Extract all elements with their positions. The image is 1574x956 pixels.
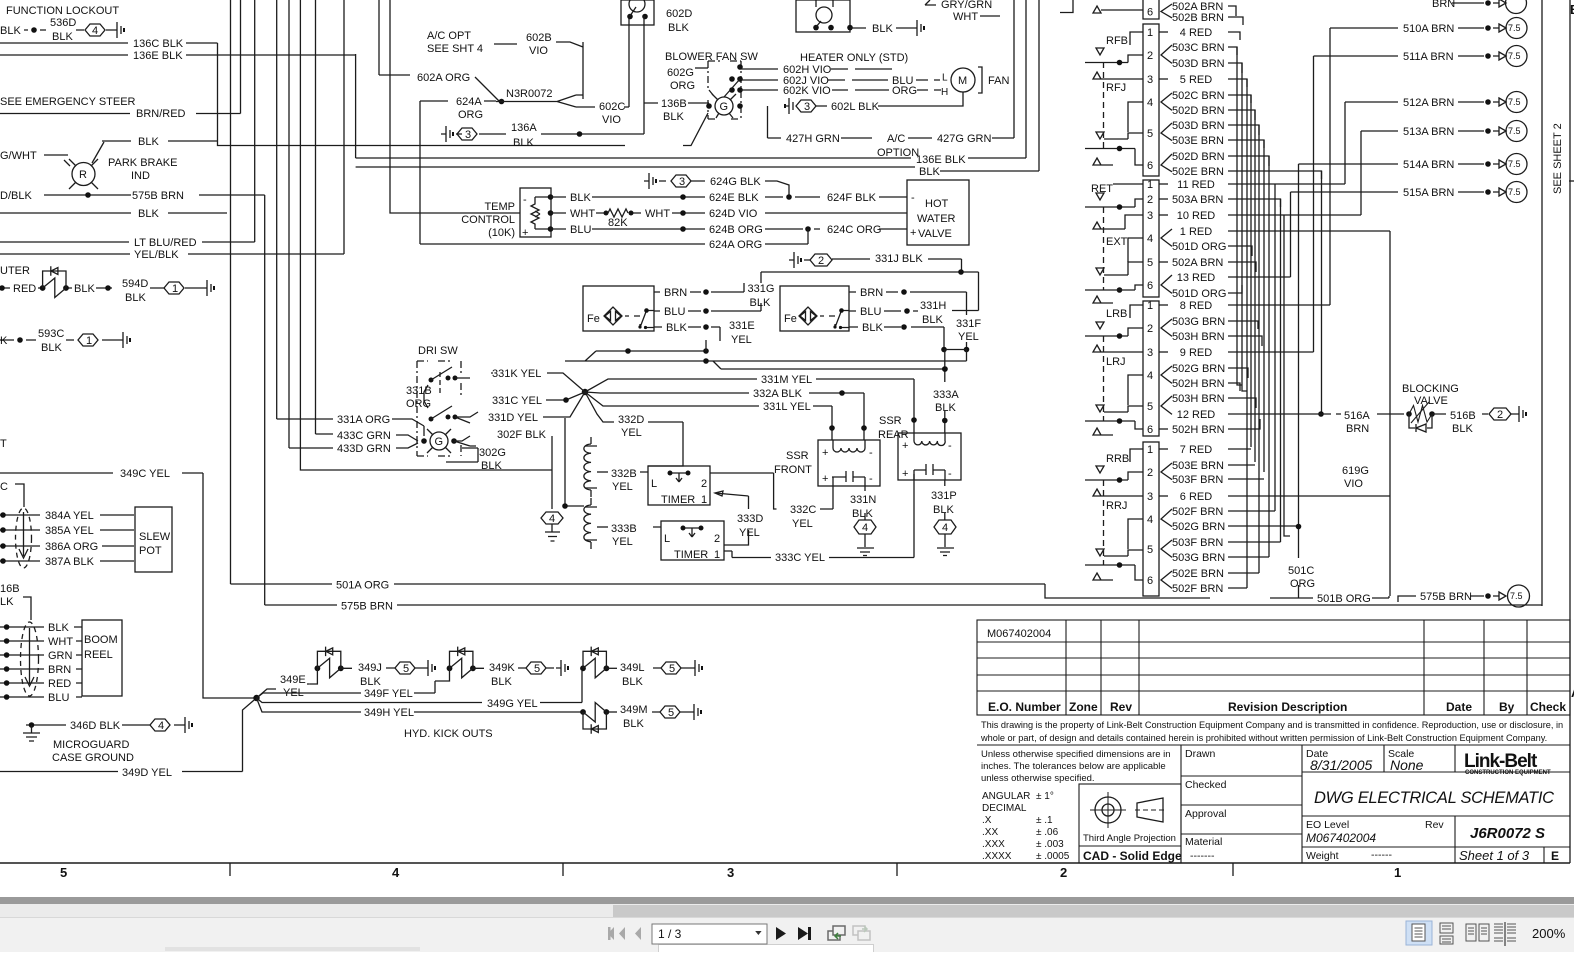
triangle up <box>1093 72 1143 79</box>
svg-text:Date: Date <box>1446 700 1472 714</box>
svg-text:503E BRN: 503E BRN <box>1172 135 1224 147</box>
svg-text:TEMP: TEMP <box>484 201 515 213</box>
wire 349E YEL <box>257 684 310 698</box>
wire RFB pin1 <box>1130 32 1143 45</box>
svg-text:3: 3 <box>727 865 734 880</box>
svg-text:DRI SW: DRI SW <box>418 345 458 357</box>
svg-text:501A ORG: 501A ORG <box>336 580 389 592</box>
svg-text:Sheet 1 of 3: Sheet 1 of 3 <box>1459 848 1530 863</box>
svg-text:-: - <box>948 468 952 480</box>
svg-text:331M YEL: 331M YEL <box>761 374 812 386</box>
svg-text:± .1: ± .1 <box>1036 815 1053 826</box>
ground <box>118 332 127 348</box>
wire 433D GRN <box>289 443 418 448</box>
svg-text:-: - <box>911 192 915 204</box>
svg-text:2: 2 <box>1147 467 1153 479</box>
svg-text:LRJ: LRJ <box>1106 356 1126 368</box>
svg-text:503F BRN: 503F BRN <box>1172 474 1223 486</box>
wire 602K VIO <box>741 89 941 91</box>
svg-text:BLK: BLK <box>52 31 73 43</box>
pin 3 <box>1147 491 1153 503</box>
wire 624G BLK <box>644 173 666 189</box>
border inner right <box>1541 0 1543 606</box>
svg-text:7 RED: 7 RED <box>1180 444 1212 456</box>
wire G/WHT <box>44 154 68 156</box>
svg-text:2: 2 <box>1147 323 1153 335</box>
triangle up <box>1093 215 1143 229</box>
connector block 2 outline <box>1143 24 1159 176</box>
svg-text:YEL: YEL <box>612 536 633 548</box>
cable shield boom reel <box>21 622 39 696</box>
component BOOM REEL <box>82 620 122 696</box>
connector left decorations RRB/RRJ <box>1106 453 1129 512</box>
svg-text:BLK: BLK <box>666 322 687 334</box>
fuse row partial top <box>1452 0 1506 7</box>
wire top bus 272 <box>761 272 979 283</box>
wire 331M YEL <box>585 379 914 433</box>
svg-text:4: 4 <box>549 513 555 525</box>
svg-text:BRN/RED: BRN/RED <box>136 108 186 120</box>
svg-text:3: 3 <box>1147 347 1153 359</box>
connector left decorations LRB/LRJ <box>1106 308 1127 368</box>
svg-text:None: None <box>1390 757 1424 773</box>
fuse 514A BRN <box>1299 160 1507 168</box>
svg-text:BLU: BLU <box>664 306 685 318</box>
wire 602B VIO <box>494 42 583 99</box>
wire 136E BLK jog <box>355 54 357 158</box>
svg-text:L: L <box>651 478 657 490</box>
svg-text:RRB: RRB <box>1106 453 1129 465</box>
node A/C OPT SEE SHT 4 <box>427 30 483 55</box>
svg-text:G: G <box>720 101 729 113</box>
svg-text:502E BRN: 502E BRN <box>1172 166 1224 178</box>
svg-text:516A: 516A <box>1344 410 1370 422</box>
wire 624A ORG drop <box>420 101 496 244</box>
svg-text:ANGULAR: ANGULAR <box>982 791 1030 802</box>
wire pin5 dot <box>1085 149 1143 166</box>
svg-text:136E BLK: 136E BLK <box>916 154 966 166</box>
wire slew cable bracket <box>15 484 24 507</box>
svg-text:331H: 331H <box>920 300 946 312</box>
pin 4 <box>1147 514 1153 526</box>
svg-text:331K YEL: 331K YEL <box>492 368 541 380</box>
connector block 1 outline <box>1143 0 1159 19</box>
svg-text:BLK: BLK <box>933 504 954 516</box>
wire vertical bus V3 LT BLU/RED <box>254 0 256 242</box>
svg-text:3: 3 <box>804 101 810 113</box>
svg-text:511A BRN: 511A BRN <box>1403 51 1454 63</box>
wire corner top right of heater <box>1060 0 1073 13</box>
svg-text:503E BRN: 503E BRN <box>1172 460 1224 472</box>
svg-text:MICROGUARD: MICROGUARD <box>53 739 129 751</box>
svg-text:349M: 349M <box>620 704 648 716</box>
svg-text:624A ORG: 624A ORG <box>709 239 762 251</box>
svg-text:K: K <box>0 335 8 347</box>
svg-text:602K VIO: 602K VIO <box>783 85 831 97</box>
svg-text:331B: 331B <box>406 385 432 397</box>
svg-text:CASE GROUND: CASE GROUND <box>52 752 134 764</box>
svg-text:3: 3 <box>1147 491 1153 503</box>
svg-text:619G: 619G <box>1342 465 1369 477</box>
svg-text:4: 4 <box>1147 97 1153 109</box>
svg-text:349H YEL: 349H YEL <box>364 707 414 719</box>
wire vertical bus V9 YEL/BLK <box>343 0 345 254</box>
svg-text:G/WHT: G/WHT <box>0 150 37 162</box>
svg-text:C: C <box>0 481 8 493</box>
svg-text:-: - <box>869 473 873 485</box>
pin 2 <box>1147 323 1153 335</box>
svg-text:L: L <box>942 73 948 84</box>
svg-text:331E: 331E <box>729 320 755 332</box>
svg-text:594D: 594D <box>122 278 148 290</box>
svg-text:L: L <box>664 533 670 545</box>
svg-text:333D: 333D <box>737 513 763 525</box>
svg-text:624B ORG: 624B ORG <box>709 224 763 236</box>
wire 349F YEL <box>257 681 436 698</box>
wire 602A ORG drop <box>378 0 380 75</box>
svg-text:433D GRN: 433D GRN <box>337 443 391 455</box>
svg-text:A/C: A/C <box>887 133 905 145</box>
svg-text:BRN: BRN <box>1432 0 1455 10</box>
wire 575B BRN right <box>1398 592 1506 602</box>
wire Fe1 BLU <box>654 303 761 311</box>
svg-text:6: 6 <box>1147 160 1153 172</box>
svg-text:1: 1 <box>172 283 178 295</box>
svg-text:+: + <box>522 227 528 239</box>
svg-text:DWG ELECTRICAL SCHEMATIC: DWG ELECTRICAL SCHEMATIC <box>1314 789 1554 807</box>
svg-text:-: - <box>869 447 873 459</box>
triangle up <box>1093 296 1113 303</box>
relay Fe 2 <box>780 286 849 331</box>
svg-text:A/C OPT: A/C OPT <box>427 30 471 42</box>
wire 331P BLK <box>944 480 946 520</box>
wire bundle verticals right of connector <box>1237 47 1242 385</box>
svg-text:YEL: YEL <box>739 527 760 539</box>
pin 5 <box>1147 544 1153 556</box>
wire 332A BLK <box>585 392 864 440</box>
svg-text:.X: .X <box>982 815 992 826</box>
svg-text:R: R <box>79 169 87 181</box>
svg-text:BLK: BLK <box>481 460 502 472</box>
svg-text:332A BLK: 332A BLK <box>753 388 803 400</box>
component SSR FRONT <box>774 450 812 476</box>
wire heater top switch <box>796 0 850 32</box>
fuse 511A BRN <box>1314 52 1507 60</box>
wire vertical bus V7 <box>300 0 552 470</box>
svg-text:331L YEL: 331L YEL <box>763 401 811 413</box>
connector hexagon 1 <box>164 282 184 294</box>
svg-text:E.O. Number: E.O. Number <box>988 700 1061 714</box>
zone numbers bottom <box>60 865 1401 880</box>
svg-text:503G BRN: 503G BRN <box>1172 552 1225 564</box>
svg-text:+: + <box>902 468 908 480</box>
wire 602A ORG <box>379 75 499 101</box>
wire 331D YEL <box>543 392 585 417</box>
svg-text:VIO: VIO <box>602 114 621 126</box>
wire 386A ORG <box>0 545 134 547</box>
svg-text:(10K): (10K) <box>488 227 515 239</box>
svg-text:575B BRN: 575B BRN <box>132 190 184 202</box>
wire 331N BLK <box>864 486 866 520</box>
svg-text:503A BRN: 503A BRN <box>1172 194 1223 206</box>
svg-text:SEE EMERGENCY STEER: SEE EMERGENCY STEER <box>0 96 136 108</box>
svg-text:ORG: ORG <box>458 109 483 121</box>
connector block 4 outline <box>1143 301 1159 436</box>
svg-text:VALVE: VALVE <box>1414 395 1448 407</box>
svg-text:331D YEL: 331D YEL <box>488 412 538 424</box>
svg-text:IND: IND <box>131 170 150 182</box>
svg-text:LK: LK <box>0 596 14 608</box>
wire 624E BLK / 624F BLK <box>551 196 908 198</box>
svg-text:HYD. KICK OUTS: HYD. KICK OUTS <box>404 728 493 740</box>
diode relay 349L <box>580 647 609 678</box>
zone letter A right edge <box>1571 685 1574 700</box>
svg-text:16B: 16B <box>0 583 20 595</box>
svg-text:515A BRN: 515A BRN <box>1403 187 1454 199</box>
svg-text:SSR: SSR <box>879 415 902 427</box>
toolbar nav buttons <box>600 920 890 948</box>
resistor 82K <box>551 212 908 214</box>
svg-text:WHT: WHT <box>953 11 978 23</box>
wire 501A ORG <box>231 584 1211 598</box>
svg-text:SEE SHEET 2: SEE SHEET 2 <box>1552 123 1564 194</box>
pin 2 <box>1147 50 1153 62</box>
svg-text:FAN: FAN <box>988 75 1009 87</box>
wire 349G YEL <box>257 671 583 703</box>
wire BLK park brake <box>102 140 218 142</box>
pin 2 <box>1147 467 1153 479</box>
svg-text:FUNCTION LOCKOUT: FUNCTION LOCKOUT <box>6 5 119 17</box>
ground <box>112 22 121 38</box>
svg-text:502H BRN: 502H BRN <box>1172 378 1225 390</box>
wire 333D YEL <box>715 491 749 545</box>
svg-text:BRN: BRN <box>860 287 883 299</box>
svg-text:6: 6 <box>1147 7 1153 19</box>
wire 331F YEL down <box>941 347 947 353</box>
svg-text:BRN: BRN <box>1346 423 1369 435</box>
svg-text:602C: 602C <box>599 101 625 113</box>
svg-text:BLU: BLU <box>860 306 881 318</box>
border zone tick right <box>1569 180 1574 182</box>
svg-text:1 RED: 1 RED <box>1180 226 1212 238</box>
svg-text:2: 2 <box>1060 865 1067 880</box>
svg-text:332B: 332B <box>611 468 637 480</box>
title DWG ELECTRICAL SCHEMATIC <box>1314 789 1554 807</box>
svg-text:HEATER ONLY (STD): HEATER ONLY (STD) <box>800 52 908 64</box>
svg-text:SLEW: SLEW <box>139 531 171 543</box>
svg-text:± .06: ± .06 <box>1036 827 1059 838</box>
wire 331L YEL <box>585 392 832 440</box>
connector hexagon 4 mid <box>541 512 563 524</box>
wire 624A ORG bottom <box>420 243 808 245</box>
wire vertical bus V5 331A ORG <box>276 0 278 419</box>
svg-text:82K: 82K <box>608 217 628 229</box>
connector hexagon 5 <box>526 662 546 674</box>
svg-text:BLU: BLU <box>570 224 591 236</box>
svg-text:575B BRN: 575B BRN <box>341 601 393 613</box>
triangle up <box>1093 573 1113 580</box>
svg-text:5: 5 <box>1147 544 1153 556</box>
node C partial <box>0 481 8 493</box>
svg-text:BLK: BLK <box>48 622 69 634</box>
svg-text:503D BRN: 503D BRN <box>1172 120 1225 132</box>
triangle down <box>1096 466 1104 473</box>
svg-text:RED: RED <box>48 678 71 690</box>
wire Fe2 BLK <box>849 327 944 350</box>
svg-text:512A BRN: 512A BRN <box>1403 97 1454 109</box>
wire vertical bus V8 433C GRN <box>315 0 317 434</box>
svg-text:4: 4 <box>92 25 98 37</box>
svg-text:± .003: ± .003 <box>1036 839 1064 850</box>
svg-text:6 RED: 6 RED <box>1180 491 1212 503</box>
svg-text:M: M <box>958 75 967 87</box>
svg-text:-: - <box>523 194 527 206</box>
svg-text:3: 3 <box>465 129 471 141</box>
wire mid bus 361 <box>565 350 967 362</box>
svg-text:6: 6 <box>1147 575 1153 587</box>
triangle down <box>1096 193 1104 200</box>
node FUNCTION LOCKOUT label <box>6 5 119 17</box>
node junction hyd kick outs <box>253 695 259 701</box>
svg-text:10 RED: 10 RED <box>1177 210 1216 222</box>
ground <box>912 20 921 36</box>
connector block 5 outline <box>1143 442 1159 596</box>
svg-text:624C ORG: 624C ORG <box>827 224 881 236</box>
svg-text:Drawn: Drawn <box>1185 748 1216 760</box>
lamp R park brake ind <box>72 163 95 186</box>
wire 501B ORG <box>1270 596 1389 598</box>
svg-text:5 RED: 5 RED <box>1180 74 1212 86</box>
svg-text:BLK: BLK <box>919 166 940 178</box>
svg-text:331A ORG: 331A ORG <box>337 414 390 426</box>
wire Fe1 BLK 331E YEL <box>654 327 720 341</box>
svg-text:2: 2 <box>701 478 707 490</box>
svg-text:PARK BRAKE: PARK BRAKE <box>108 157 178 169</box>
svg-text:3: 3 <box>1147 210 1153 222</box>
svg-text:RFB: RFB <box>1106 35 1128 47</box>
svg-text:.XX: .XX <box>982 827 998 838</box>
svg-text:RFJ: RFJ <box>1106 82 1126 94</box>
svg-text:BLK: BLK <box>491 676 512 688</box>
wire WHT boom <box>0 640 82 642</box>
svg-text:503G BRN: 503G BRN <box>1172 316 1225 328</box>
svg-text:Weight: Weight <box>1306 850 1339 862</box>
wire 433C GRN <box>316 434 419 441</box>
svg-text:136B: 136B <box>661 98 687 110</box>
wire 619G VIO vertical <box>1389 231 1391 596</box>
node HYD. KICK OUTS <box>404 728 493 740</box>
svg-text:EO Level: EO Level <box>1306 819 1349 831</box>
pin 3 <box>1147 74 1153 86</box>
wire Fe2 BLU 331H BLK <box>849 272 979 311</box>
title block middle column <box>1181 745 1302 863</box>
svg-text:BRN: BRN <box>48 664 71 676</box>
svg-text:1 / 3: 1 / 3 <box>658 927 682 941</box>
svg-text:FRONT: FRONT <box>774 464 812 476</box>
node COMPUTER partial <box>0 265 30 277</box>
svg-text:5: 5 <box>1147 401 1153 413</box>
svg-text:349K: 349K <box>489 662 515 674</box>
svg-text:+: + <box>910 227 916 239</box>
svg-text:Unless otherwise specified dim: Unless otherwise specified dimensions ar… <box>981 749 1171 760</box>
svg-text:1: 1 <box>1147 27 1153 39</box>
svg-text:YEL: YEL <box>958 331 979 343</box>
svg-text:503F BRN: 503F BRN <box>1172 537 1223 549</box>
wire boom cable bracket <box>23 597 31 620</box>
fuse 513A BRN <box>1361 127 1506 135</box>
svg-text:349D YEL: 349D YEL <box>122 767 172 779</box>
svg-text:BLK: BLK <box>750 297 771 309</box>
svg-text:BLOCKING: BLOCKING <box>1402 383 1459 395</box>
svg-text:GRN: GRN <box>48 650 73 662</box>
svg-text:ORG: ORG <box>1290 578 1315 590</box>
svg-text:624D VIO: 624D VIO <box>709 208 758 220</box>
svg-text:333A: 333A <box>933 389 959 401</box>
svg-text:BLK: BLK <box>138 208 159 220</box>
svg-text:BLK: BLK <box>623 718 644 730</box>
wire 331A ORG <box>277 419 424 436</box>
svg-text:503D BRN: 503D BRN <box>1172 58 1225 70</box>
pin 2 <box>1147 194 1153 206</box>
triangle down <box>1096 549 1143 556</box>
svg-text:YEL: YEL <box>731 334 752 346</box>
svg-text:+: + <box>902 440 908 452</box>
switch DRI SW <box>418 345 458 357</box>
connector hexagon 5 <box>661 662 681 674</box>
wire 136C BLK <box>0 43 708 146</box>
wire 331C YEL <box>546 392 585 400</box>
pin 5 <box>1147 401 1153 413</box>
svg-text:602B: 602B <box>526 32 552 44</box>
pin 5 <box>1147 128 1153 140</box>
svg-text:4: 4 <box>158 720 164 732</box>
svg-text:BLK: BLK <box>0 25 21 37</box>
pin 4 <box>1147 233 1153 245</box>
svg-text:ORG: ORG <box>892 85 917 97</box>
wire Fe1 BRN 331G BLK <box>654 283 744 292</box>
svg-text:502G BRN: 502G BRN <box>1172 363 1225 375</box>
svg-text:502B BRN: 502B BRN <box>1172 12 1224 24</box>
wire 602G ORG <box>695 67 708 69</box>
svg-text:501C: 501C <box>1288 565 1314 577</box>
wire 602J VIO <box>741 79 940 81</box>
pin 6 <box>1147 160 1153 172</box>
pin 3 <box>1147 210 1153 222</box>
wire 593C BLK <box>0 339 118 341</box>
triangle up <box>1093 489 1143 496</box>
svg-text:E: E <box>1551 849 1559 863</box>
svg-text:G: G <box>435 436 444 448</box>
wire 349C YEL <box>0 473 257 698</box>
svg-text:HOT: HOT <box>925 198 949 210</box>
svg-text:346D BLK: 346D BLK <box>70 720 121 732</box>
connector wire labels <box>1172 1 1226 595</box>
wire coil feed <box>565 418 584 506</box>
svg-text:502G BRN: 502G BRN <box>1172 521 1225 533</box>
svg-text:11 RED: 11 RED <box>1177 179 1215 191</box>
svg-text:13 RED: 13 RED <box>1177 272 1216 284</box>
svg-text:This drawing is the property o: This drawing is the property of Link-Bel… <box>981 720 1563 730</box>
svg-text:513A BRN: 513A BRN <box>1403 126 1454 138</box>
svg-text:Rev: Rev <box>1110 700 1132 714</box>
svg-text:BLK: BLK <box>570 192 591 204</box>
svg-text:1: 1 <box>1394 865 1401 880</box>
connector hexagon 5 <box>660 706 680 718</box>
svg-text:7.5: 7.5 <box>1508 126 1521 136</box>
inductor coil 2 <box>590 498 592 505</box>
pin 4 <box>1147 97 1153 109</box>
svg-text:386A ORG: 386A ORG <box>45 541 98 553</box>
